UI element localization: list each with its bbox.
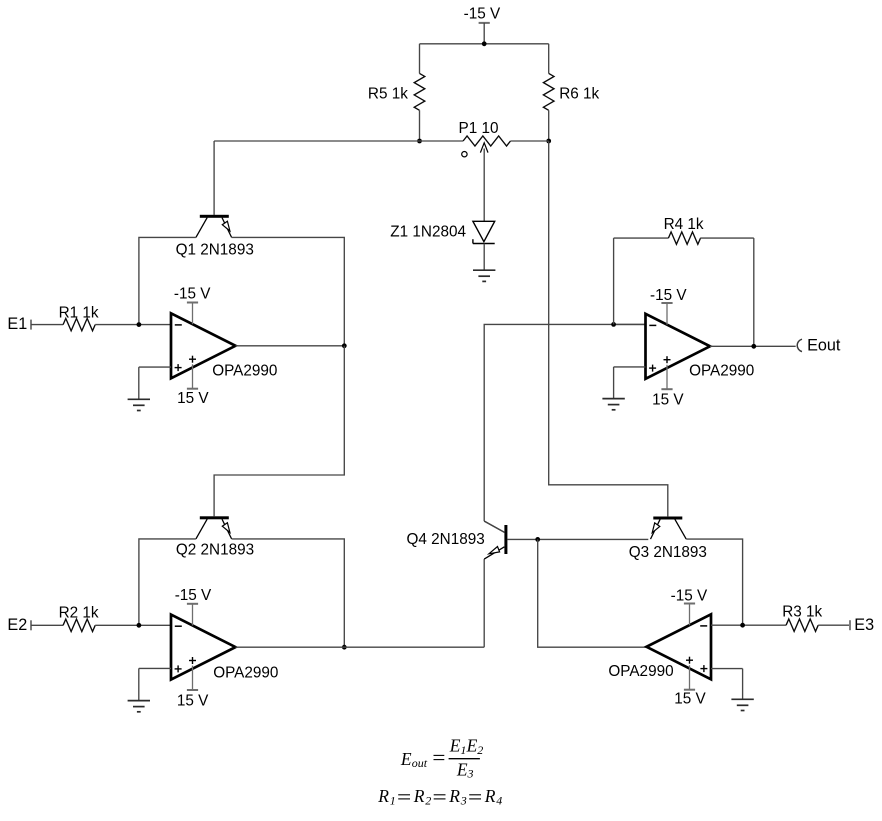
svg-text:15 V: 15 V (177, 693, 209, 710)
wire R6 node down to Q3 base (549, 141, 668, 516)
resistor R3 (786, 619, 818, 631)
wire U4 output (710, 345, 796, 347)
transistor Q2 (200, 516, 229, 519)
svg-text:R6 1k: R6 1k (559, 86, 599, 103)
svg-text:3: 3 (460, 793, 467, 807)
terminal Eout (797, 339, 802, 351)
svg-text:R5 1k: R5 1k (368, 86, 408, 103)
wire U3 noninverting input (711, 668, 743, 670)
wire R5 to pot (419, 110, 421, 141)
svg-text:R: R (413, 786, 425, 806)
wire Q4 collector vertical (484, 324, 645, 521)
ground U3 (731, 698, 753, 700)
svg-text:R2 1k: R2 1k (59, 604, 99, 621)
svg-text:R4 1k: R4 1k (664, 216, 704, 233)
wire top rail (420, 43, 549, 45)
svg-text:out: out (412, 756, 428, 770)
svg-text:Q4 2N1893: Q4 2N1893 (407, 531, 485, 548)
node U4 output junction (751, 344, 756, 349)
node Q4 base junction (535, 537, 540, 542)
svg-text:R: R (377, 786, 389, 806)
svg-text:R1 1k: R1 1k (59, 304, 99, 321)
svg-text:15 V: 15 V (652, 392, 684, 409)
wire R2 to U2 (95, 624, 171, 626)
svg-text:OPA2990: OPA2990 (212, 363, 277, 380)
ground Z1 (473, 269, 495, 271)
transistor Q3 (653, 517, 682, 520)
svg-text:Eout: Eout (807, 336, 841, 354)
svg-text:E1: E1 (7, 315, 27, 333)
svg-text:E: E (456, 759, 468, 779)
svg-text:Z1 1N2804: Z1 1N2804 (390, 224, 466, 241)
svg-text:2: 2 (477, 743, 483, 757)
wire Z1 to ground (483, 244, 485, 271)
wire U2 noninverting input (139, 667, 171, 669)
wire U1 output (236, 345, 345, 347)
svg-text:-15 V: -15 V (671, 588, 708, 605)
wire Q4 collector to U4 inverting input (484, 521, 504, 532)
svg-text:E: E (400, 749, 412, 769)
node pot left junction (417, 139, 422, 144)
wire U1 output to Q2 base (214, 346, 344, 517)
node U2 inverting input (137, 623, 142, 628)
power -15V supply bar (479, 22, 490, 24)
wire pot to Q1 base (214, 140, 419, 142)
wire Q3 collector to U3 inverting input (686, 539, 742, 625)
svg-text:R3 1k: R3 1k (782, 603, 822, 620)
svg-text:1: 1 (390, 793, 396, 807)
svg-text:E2: E2 (7, 616, 27, 634)
wire Q1 collector to U1 inverting input (139, 237, 196, 324)
svg-text:Q1 2N1893: Q1 2N1893 (176, 241, 254, 258)
svg-text:Q2 2N1893: Q2 2N1893 (176, 541, 254, 558)
resistor R4 (668, 232, 700, 244)
svg-text:OPA2990: OPA2990 (608, 663, 673, 680)
svg-text:15 V: 15 V (177, 390, 209, 407)
wire Q2 collector to U2 inverting input (139, 539, 196, 625)
node pot right junction (546, 139, 551, 144)
wire U1 noninverting input (139, 366, 171, 368)
terminal E3 (849, 620, 851, 630)
wire to R5 (419, 44, 421, 74)
op-amp U1 (171, 313, 236, 378)
svg-text:R: R (484, 786, 496, 806)
svg-text:1: 1 (460, 743, 466, 757)
resistor R1 (63, 318, 95, 330)
svg-text:-15 V: -15 V (174, 285, 211, 302)
svg-text:15 V: 15 V (674, 690, 706, 707)
wire R6 to pot (548, 110, 550, 141)
svg-text:2: 2 (425, 793, 431, 807)
wire U4 inverting row (614, 323, 646, 325)
wire to R6 (548, 44, 550, 74)
node U3 inverting input (740, 623, 745, 628)
svg-text:E: E (449, 736, 461, 756)
transistor Q4 (504, 525, 507, 554)
wire U2 output to Q4 emitter (236, 646, 485, 648)
node U2 output junction (342, 645, 347, 650)
svg-text:OPA2990: OPA2990 (689, 363, 754, 380)
zener diode Z1 (473, 221, 495, 241)
op-amp U4 (646, 314, 711, 379)
op-amp U2 (171, 615, 236, 680)
node top rail junction (482, 41, 487, 46)
wire Q4 base to U3 output (538, 539, 647, 647)
wire U3 inverting input (711, 624, 786, 626)
transistor Q1 (200, 215, 229, 218)
wire R3 to E3 (818, 624, 850, 626)
svg-text:-15 V: -15 V (650, 287, 687, 304)
wire Q2 emitter to U2 output (232, 539, 345, 647)
ground U1 (128, 398, 150, 400)
resistor R5 (414, 73, 425, 110)
wire R4 feedback right (700, 237, 754, 239)
svg-text:3: 3 (467, 767, 474, 781)
ground U4 (602, 398, 624, 400)
wire E2 to R2 (31, 624, 63, 626)
potentiometer P1 wiper arrow (480, 143, 488, 153)
resistor R2 (63, 619, 95, 631)
svg-text:P1 10: P1 10 (459, 120, 499, 137)
op-amp U3 (647, 614, 712, 679)
svg-text:4: 4 (496, 793, 502, 807)
wire R4 feedback left (613, 238, 615, 324)
wire R1 to U1 (95, 324, 171, 326)
svg-text:E3: E3 (854, 616, 874, 634)
svg-text:R: R (448, 786, 460, 806)
potentiometer P1 (420, 140, 464, 142)
wire E1 to R1 (31, 324, 63, 326)
wire Q1 emitter to U1 output (232, 237, 345, 345)
wire Q1 base vertical (213, 141, 215, 215)
node U4 inverting input (611, 322, 616, 327)
svg-text:OPA2990: OPA2990 (213, 664, 278, 681)
node U1 output junction (342, 343, 347, 348)
potentiometer P1 wiper circle (462, 152, 467, 157)
wire Q4 base (507, 538, 648, 540)
node U1 inverting input (137, 322, 142, 327)
svg-text:Q3 2N1893: Q3 2N1893 (629, 544, 707, 561)
ground U2 (128, 700, 150, 702)
svg-text:-15 V: -15 V (464, 5, 501, 22)
svg-text:-15 V: -15 V (175, 587, 212, 604)
resistor R6 (543, 73, 554, 110)
svg-text:E: E (466, 736, 478, 756)
wire U4 noninverting input (614, 366, 646, 368)
